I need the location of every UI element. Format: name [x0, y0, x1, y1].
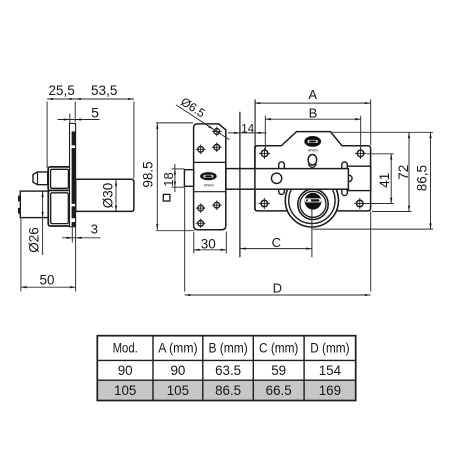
screw hole faceplate top right	[214, 129, 220, 135]
wire: vertical reference line (door edge)	[239, 112, 241, 258]
svg-text:C: C	[272, 235, 281, 250]
svg-text:Ø30: Ø30	[101, 183, 116, 209]
dim Ø26	[42, 191, 44, 255]
spindle hub on faceplate	[184, 170, 193, 187]
svg-text:90: 90	[170, 363, 185, 378]
knob housing (upper square, side view)	[48, 167, 71, 191]
screw hole faceplate lower pair right	[214, 202, 220, 208]
wire: 98.5 bottom extension	[156, 230, 195, 232]
screw hole faceplate lower pair left	[198, 205, 204, 211]
screw hole front top-right	[357, 150, 364, 157]
svg-text:59: 59	[271, 363, 286, 378]
svg-text:5: 5	[91, 105, 99, 121]
svg-text:105: 105	[114, 383, 136, 398]
set-screw tab lower on Ø26 face	[18, 208, 21, 214]
dim 14	[228, 132, 267, 134]
cylinder housing (lower square, side view)	[48, 190, 70, 226]
svg-text:Mod.: Mod.	[113, 341, 138, 356]
cylinder escutcheon outer circles	[285, 174, 338, 227]
wire: ext shared 3/50 right	[75, 228, 77, 292]
bolt end nub	[346, 175, 352, 181]
wire: short extension for 5	[69, 114, 71, 132]
svg-text:90: 90	[118, 363, 133, 378]
dim 50	[20, 218, 22, 291]
svg-text:A: A	[308, 87, 317, 102]
brand logo oval front	[304, 136, 321, 147]
wire: extension line right of 53,5	[133, 102, 135, 179]
screw hole front bottom-left	[261, 200, 268, 207]
bolt guide box at right	[347, 166, 370, 190]
dim B	[265, 118, 360, 120]
set-screw tab upper on Ø26 face	[18, 196, 21, 202]
cylinder face circles	[298, 189, 328, 219]
cylinder body Ø30 (side view, through door)	[76, 179, 134, 211]
dim D	[184, 187, 186, 292]
svg-text:63.5: 63.5	[215, 363, 241, 378]
dim 72	[330, 131, 433, 133]
svg-text:41: 41	[377, 173, 392, 188]
dim A	[255, 102, 371, 104]
bolt knob circle	[271, 173, 281, 183]
dim 98.5	[156, 123, 158, 230]
guide pin left (capsule)	[279, 162, 285, 195]
knob (thumb turn, side view)	[33, 172, 48, 185]
wire: faceplate section divider lower	[194, 191, 226, 193]
svg-text:53,5: 53,5	[91, 83, 117, 98]
faceplate (exterior escutcheon plate)	[194, 124, 226, 230]
screw hole faceplate pair left	[198, 146, 204, 152]
front plate of rim lock	[255, 132, 371, 211]
svg-text:D (mm): D (mm)	[310, 341, 349, 356]
wire: dim line 25,5 / 53,5	[47, 98, 134, 100]
wire: dim line 5 (plate thickness)	[58, 119, 100, 121]
dim 18 (square spindle)	[174, 164, 176, 192]
svg-text:C (mm): C (mm)	[259, 341, 298, 356]
svg-text:86,5: 86,5	[415, 165, 430, 191]
wire: cylinder centerline	[311, 208, 313, 257]
dim 30 (faceplate width)	[193, 232, 195, 254]
table: model dimension chart	[98, 380, 355, 400]
svg-text:169: 169	[319, 383, 341, 398]
screw hole faceplate bottom	[198, 220, 204, 226]
screw hole faceplate pair right	[214, 144, 220, 150]
faceplate seen edge-on (vertical strip)	[70, 123, 76, 226]
dim C	[240, 248, 312, 250]
leader line Ø6.5	[176, 105, 229, 140]
svg-text:Ø6.5: Ø6.5	[178, 94, 208, 120]
svg-text:SPAIN: SPAIN	[308, 148, 318, 152]
wire: plate left edge over bolt + A extension	[254, 99, 256, 146]
svg-text:SPAIN: SPAIN	[204, 183, 214, 187]
dim Ø30	[115, 180, 117, 211]
svg-text:72: 72	[396, 165, 411, 180]
svg-text:50: 50	[39, 273, 54, 288]
screw hole front top-left	[261, 150, 268, 157]
wire: extension line left of 25,5	[46, 102, 48, 169]
svg-text:86.5: 86.5	[215, 383, 241, 398]
svg-text:D: D	[273, 281, 282, 296]
dim 86,5	[313, 228, 433, 230]
brand logo oval on faceplate	[200, 172, 217, 180]
section fill marks on edge strip	[72, 131, 76, 145]
svg-text:25,5: 25,5	[48, 83, 74, 98]
svg-text:3: 3	[91, 222, 98, 237]
svg-text:14: 14	[241, 123, 254, 135]
keyhole disc	[305, 193, 322, 210]
bolt bar	[226, 169, 349, 190]
wire: faceplate section divider upper	[194, 161, 226, 163]
svg-text:B (mm): B (mm)	[208, 341, 247, 356]
svg-text:98.5: 98.5	[140, 161, 155, 187]
dim 41	[367, 153, 394, 155]
wire: extension line shared (plate right edge)	[74, 102, 76, 123]
svg-text:154: 154	[319, 363, 342, 378]
svg-text:B: B	[309, 105, 318, 120]
svg-text:A (mm): A (mm)	[158, 341, 197, 356]
square symbol for 18	[163, 194, 170, 201]
wire: A/D right extension	[370, 99, 372, 145]
svg-text:66.5: 66.5	[266, 383, 292, 398]
staple ring above bolt	[308, 164, 316, 167]
cylinder body Ø26 (outer cylinder, side view)	[20, 191, 48, 218]
wire: 98.5 top extension	[156, 122, 193, 124]
guide pin right (capsule)	[342, 162, 348, 196]
svg-text:105: 105	[167, 383, 189, 398]
screw hole front bottom-right	[357, 200, 364, 207]
svg-text:30: 30	[201, 236, 216, 251]
wire: ext for 3 (inner)	[71, 228, 73, 243]
dim 3	[62, 237, 101, 239]
svg-text:Ø26: Ø26	[26, 227, 41, 253]
svg-text:18: 18	[161, 172, 176, 186]
